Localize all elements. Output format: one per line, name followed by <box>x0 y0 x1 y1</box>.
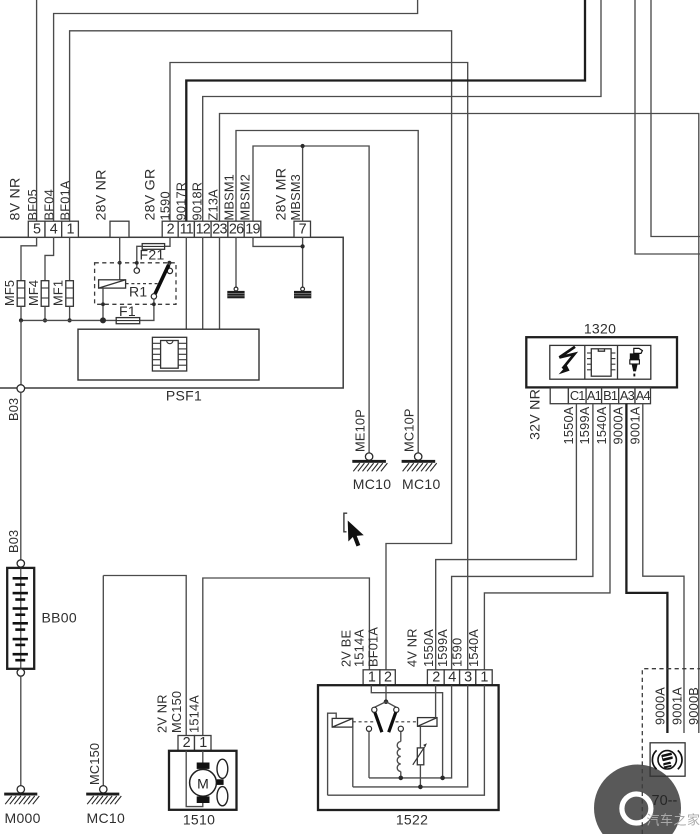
svg-text:MC10: MC10 <box>87 810 126 826</box>
PSF1 pin 4 <box>45 221 62 237</box>
svg-text:MBSM1: MBSM1 <box>221 174 236 221</box>
ground ME10P symbol <box>352 453 387 471</box>
wire lower contact right to inductor <box>400 731 402 741</box>
1320 injector symbol <box>630 348 643 376</box>
battery BB00 bottom terminal <box>17 669 24 676</box>
svg-text:2: 2 <box>384 669 392 685</box>
svg-text:1320: 1320 <box>584 321 616 337</box>
junction pivot wire at dashed edge <box>152 302 156 306</box>
wire PSF1 pin 12 to controller <box>202 237 204 329</box>
fuse F21 <box>142 244 164 250</box>
svg-text:汽车之家: 汽车之家 <box>647 813 700 828</box>
wire PSF1 pin 2 to fuse F21 <box>165 237 170 246</box>
switch upper contact left <box>372 707 377 712</box>
svg-text:A3: A3 <box>620 388 635 403</box>
inductor <box>397 742 401 772</box>
relay R1 mechanical link (dashed) <box>126 283 160 285</box>
fuse MF5 <box>17 281 25 307</box>
svg-text:8V NR: 8V NR <box>7 177 23 220</box>
svg-text:7: 7 <box>299 222 307 238</box>
svg-text:28V NR: 28V NR <box>93 169 109 220</box>
internal ground MBSM3 <box>301 287 305 291</box>
svg-text:9018R: 9018R <box>189 182 204 221</box>
svg-text:1522: 1522 <box>396 812 428 828</box>
1522 right coil <box>418 718 438 727</box>
PSF1 pin 5 <box>28 221 45 237</box>
fuse F1 <box>116 318 140 324</box>
battery BB00 box <box>7 568 34 669</box>
1320 pin B1 <box>602 388 619 404</box>
svg-text:MBSM3: MBSM3 <box>288 174 303 221</box>
PSF1 pin 7 <box>294 221 311 237</box>
switch lower contact left <box>366 726 371 731</box>
relay R1 dashed box <box>95 263 176 305</box>
ground M000 symbol <box>4 786 39 805</box>
1320 IC symbol <box>587 349 615 376</box>
wire 1510 pin 1 to brush <box>202 751 204 763</box>
1522 mechanical link dashed <box>353 721 375 723</box>
svg-text:32V NR: 32V NR <box>528 389 544 440</box>
1522 pin 2 (right) <box>427 670 444 685</box>
svg-text:PSF1: PSF1 <box>166 388 202 404</box>
wire coil to bus <box>102 288 104 320</box>
junction MF1/bus <box>68 318 72 322</box>
PSF1 controller box <box>78 329 259 380</box>
svg-text:1540A: 1540A <box>594 406 609 444</box>
wire 1522 pin1-left to bus1 <box>371 685 442 778</box>
PSF1 pin 23 <box>211 221 228 237</box>
1522 pin 1 (left) <box>363 670 380 685</box>
svg-text:B03: B03 <box>6 398 21 421</box>
svg-text:MC10: MC10 <box>402 476 441 492</box>
1510 pin 2 <box>178 736 195 751</box>
svg-text:MC150: MC150 <box>87 743 102 785</box>
svg-text:MF1: MF1 <box>50 280 65 306</box>
thermistor body <box>417 748 424 765</box>
junction MF4/bus <box>43 318 47 322</box>
svg-text:B1: B1 <box>603 388 618 403</box>
junction bus/B03 drop <box>19 318 23 322</box>
svg-text:1510: 1510 <box>183 812 215 828</box>
PSF1 body box <box>0 237 343 388</box>
wire MF5 to bus <box>20 306 22 320</box>
1522 pin 4 (right) <box>444 670 459 685</box>
svg-text:4: 4 <box>50 222 58 238</box>
svg-text:A4: A4 <box>636 388 651 403</box>
svg-text:1599A: 1599A <box>577 406 592 444</box>
svg-text:1590: 1590 <box>157 191 172 220</box>
junction arm tip at dashed edge <box>167 261 171 265</box>
svg-text:26: 26 <box>229 222 244 238</box>
junction inductor/bus1 <box>399 776 404 781</box>
wire MBSM3 from PSF1 pin 7 up to MBSM2 horizontal <box>302 146 304 221</box>
wire BF01A from PSF1 pin 1 up, right, down to 1522 pin 2 (left group) <box>70 31 452 670</box>
wire 1590 from PSF1 pin 2 up, right, down to 1522 pin 3 <box>170 63 468 670</box>
thermistor arrow <box>413 743 427 765</box>
svg-text:70--: 70-- <box>652 793 678 809</box>
junction coil wire at relay box edge <box>118 261 122 265</box>
wire PSF1 pin 7 to internal ground <box>302 237 304 287</box>
1522 pin 2 (left) <box>380 670 395 685</box>
1320 pin A1 <box>586 388 602 404</box>
1522 left coil <box>332 718 353 727</box>
1320 unnumbered pin <box>550 388 568 404</box>
wire 1540A from 1320 pin B1 to 1522 pin 1 <box>484 404 610 670</box>
svg-text:BF05: BF05 <box>25 189 40 220</box>
svg-text:1514A: 1514A <box>186 695 201 733</box>
switch arm left (thick) <box>375 713 382 733</box>
wire left coil top loop to bus3 <box>328 713 337 795</box>
svg-text:1550A: 1550A <box>421 629 436 667</box>
svg-text:5: 5 <box>33 222 41 238</box>
svg-text:MC10P: MC10P <box>401 408 416 452</box>
svg-text:9001A: 9001A <box>627 406 642 444</box>
svg-text:1599A: 1599A <box>435 629 450 667</box>
svg-text:23: 23 <box>212 222 227 238</box>
wire PSF1 pin 23 to controller <box>219 237 221 329</box>
battery BB00 top terminal <box>17 560 24 567</box>
svg-text:A1: A1 <box>587 388 602 403</box>
ground MC10 (left) symbol <box>86 786 121 805</box>
text caret artifact <box>344 513 347 532</box>
svg-text:B03: B03 <box>6 530 21 553</box>
wire B03 to battery <box>20 392 22 560</box>
svg-text:MC10: MC10 <box>353 476 392 492</box>
svg-text:1: 1 <box>199 735 207 751</box>
wire pin 1 to fuse MF1 <box>69 237 71 280</box>
battery BB00 cells <box>13 568 28 669</box>
svg-text:MF4: MF4 <box>26 280 41 306</box>
junction F21 wire at dashed edge <box>135 261 139 265</box>
1522 bus3 <box>328 685 485 795</box>
wire pin 4 to fuse MF4 <box>45 237 54 280</box>
wire 1510 pin 2 to lower brush <box>186 751 203 807</box>
motor M symbol <box>190 763 217 804</box>
wire right coil to thermistor <box>419 726 421 748</box>
svg-text:28V GR: 28V GR <box>142 169 158 221</box>
svg-text:ME10P: ME10P <box>352 409 367 452</box>
wire F21 to relay fixed contact <box>137 246 142 267</box>
1522 pin 1 (right) <box>476 670 492 685</box>
1510 pin 1 <box>195 736 212 751</box>
wire MC150 ground drop <box>102 576 104 786</box>
wire PSF1 pin 19 jog to pin 7 net <box>253 237 303 246</box>
wire 9000A (thick) from 1320 pin A3 down right <box>626 404 667 733</box>
svg-text:F1: F1 <box>119 303 136 319</box>
junction MBSM3/MBSM2 <box>301 144 305 148</box>
svg-text:4V NR: 4V NR <box>404 628 419 667</box>
wire pivot to F1 <box>140 299 154 320</box>
1522 bus1 <box>369 685 452 778</box>
junction thermistor/bus2 <box>418 785 423 790</box>
wire pin 5 to fuse MF5 <box>21 237 37 280</box>
svg-text:BF01A: BF01A <box>366 627 381 667</box>
svg-text:2: 2 <box>167 222 175 238</box>
switch common junction <box>384 699 389 704</box>
wire MF4 to bus <box>44 306 46 320</box>
svg-text:C1: C1 <box>570 388 585 403</box>
svg-text:1: 1 <box>480 669 488 685</box>
wire 1514A from 1510 pin 1 to 1522 pin 1 <box>203 578 370 736</box>
svg-text:R1: R1 <box>129 284 148 300</box>
wire inductor to bus1 <box>400 772 402 778</box>
wire PSF1 pin 11 to controller <box>185 237 187 329</box>
svg-text:MF5: MF5 <box>2 280 17 306</box>
wire MBSM1 from PSF1 pin 26 up, right, down to ground MC10P <box>236 131 418 453</box>
fan symbol <box>217 759 228 806</box>
svg-text:BB00: BB00 <box>42 610 77 626</box>
svg-text:11: 11 <box>180 222 194 238</box>
relay fixed contact left <box>134 268 139 273</box>
wire BF05 (8V NR) from top edge to PSF1 pin 5 <box>36 0 38 221</box>
wire thermistor to bus2 <box>419 765 421 787</box>
component 1522 box <box>318 685 499 810</box>
relay arm pivot <box>151 294 156 299</box>
svg-text:9000A: 9000A <box>611 406 626 444</box>
svg-text:1514A: 1514A <box>352 629 367 667</box>
1320 pin A3 <box>619 388 635 404</box>
wire B03 from bus down through PSF1 edge <box>20 320 22 384</box>
PSF1 pin 12 <box>194 221 211 237</box>
svg-text:M000: M000 <box>5 810 41 826</box>
junction pin19/pin7 <box>301 244 305 248</box>
wire 1522 pin2-left to switch common <box>385 685 387 702</box>
wire from top edge at x=635 down, turns right, exits right edge at y=254 <box>635 0 700 254</box>
1522 bus2 <box>353 685 468 787</box>
motor 1510 box <box>169 751 237 810</box>
svg-text:9000B: 9000B <box>686 687 700 725</box>
mouse cursor <box>347 520 364 547</box>
svg-text:9001A: 9001A <box>670 687 685 725</box>
svg-text:1540A: 1540A <box>466 629 481 667</box>
wire 9018R from PSF1 pin 12 up, right, exits top edge at x=601 <box>203 0 601 221</box>
wire 28V NR pin to relay coil <box>119 237 121 279</box>
switch lower contact right <box>398 726 403 731</box>
1320 pin A4 <box>635 388 651 404</box>
junction coil wire at dashed edge <box>101 302 105 306</box>
fuse MF4 <box>41 281 49 307</box>
svg-text:BF01A: BF01A <box>57 180 72 220</box>
wire PSF1 pin 26 to internal ground <box>235 237 237 287</box>
PSF1 pin 19 <box>244 221 261 237</box>
fuse MF1 <box>66 281 74 307</box>
junction pin1-left wire/bus1 <box>440 776 445 781</box>
wire 1522 pin2-right to right coil <box>435 685 437 717</box>
wheel sensor icon box <box>650 743 685 776</box>
component 1320 box <box>526 337 677 387</box>
svg-text:12: 12 <box>196 222 211 238</box>
PSF1 pin 1 <box>62 221 79 237</box>
connector circle on PSF1 edge <box>17 385 25 393</box>
relay R1 switch arm <box>154 265 169 297</box>
svg-text:F21: F21 <box>140 247 165 263</box>
controller IC symbol <box>152 337 186 371</box>
svg-text:3: 3 <box>464 669 472 685</box>
svg-text:1550A: 1550A <box>561 406 576 444</box>
PSF1 pin 26 <box>228 221 244 237</box>
wire from top edge at x=651 down, turns right, exits right edge at y=236.5 <box>651 0 700 237</box>
relay moving contact terminal <box>167 268 172 273</box>
wire battery to ground M000 <box>20 676 22 785</box>
PSF1 unnumbered pin (28V NR) <box>110 221 129 237</box>
svg-text:9000A: 9000A <box>653 687 668 725</box>
svg-text:1: 1 <box>66 222 74 238</box>
wire Z13A from PSF1 pin 23 up, right along y=113.5, down right edge (9000B) <box>220 114 699 734</box>
ground MC10P symbol <box>402 453 437 471</box>
junction coil/bus <box>100 317 106 323</box>
watermark ring <box>622 794 651 823</box>
1320 flash symbol <box>559 347 575 375</box>
wire 1550A from 1320 pin C1 to 1522 pin 2 <box>436 404 577 670</box>
switch struts <box>374 702 396 708</box>
svg-text:2: 2 <box>183 735 191 751</box>
wire left coil bottom to bus2 <box>352 727 354 787</box>
wire MBSM2 from PSF1 pin 19 up, right, down to ground ME10P <box>253 146 369 453</box>
wire lower contact left to bus1 <box>368 731 370 778</box>
svg-text:BF04: BF04 <box>41 189 56 220</box>
1320 inner 3-cell box <box>550 345 651 379</box>
svg-text:M: M <box>197 776 209 792</box>
PSF1 pin 11 <box>178 221 194 237</box>
relay R1 coil <box>99 280 126 288</box>
wire 1599A from 1320 pin A1 to 1522 pin 4 <box>452 404 593 670</box>
svg-text:MBSM2: MBSM2 <box>237 174 252 221</box>
PSF1 pin 2 <box>162 221 178 237</box>
switch arm right (thick) <box>389 713 396 733</box>
wire 9017R (thick) from PSF1 pin 11 up, right, exits top edge at x=585 <box>186 0 585 221</box>
svg-text:1: 1 <box>368 669 376 685</box>
svg-text:9017R: 9017R <box>173 182 188 221</box>
svg-text:2V NR: 2V NR <box>154 694 169 733</box>
wire MC150 from 1510 pin 2 to left ground <box>103 576 186 736</box>
1320 pin C1 <box>568 388 586 404</box>
wire 9001A from 1320 pin A4 down right <box>643 404 684 733</box>
svg-text:Z13A: Z13A <box>205 189 220 221</box>
wire BF04 from PSF1 pin 4 up and right, exits top edge at x=417.6 <box>54 0 418 221</box>
svg-text:1590: 1590 <box>449 638 464 667</box>
svg-text:4: 4 <box>448 669 456 685</box>
wire MF1 to bus <box>69 306 71 320</box>
internal ground MBSM1 <box>234 287 238 291</box>
svg-text:MC150: MC150 <box>169 691 184 733</box>
watermark disc <box>594 765 681 834</box>
dashed boundary box bottom right <box>642 669 700 834</box>
switch upper contact right <box>394 707 399 712</box>
svg-text:19: 19 <box>245 222 260 238</box>
svg-text:2: 2 <box>432 669 440 685</box>
internal supply bus <box>21 319 116 321</box>
wheel sensor icon <box>652 750 682 769</box>
1522 pin 3 (right) <box>460 670 476 685</box>
